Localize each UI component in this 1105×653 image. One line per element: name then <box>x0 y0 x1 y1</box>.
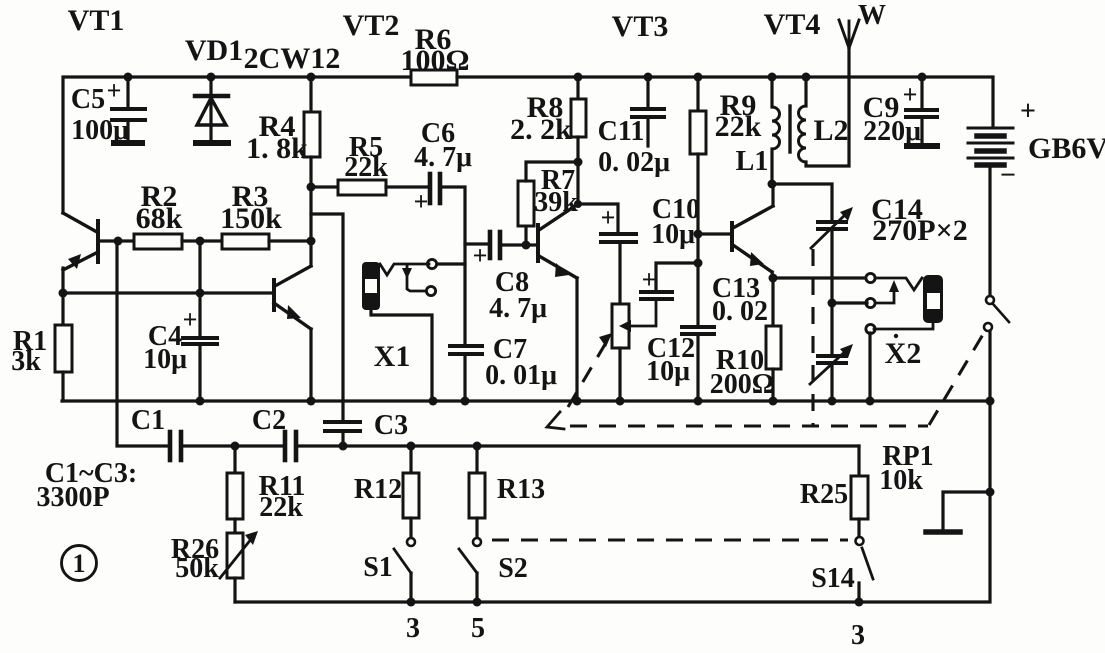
svg-text:10μ: 10μ <box>143 344 187 375</box>
svg-text:200Ω: 200Ω <box>710 369 774 400</box>
svg-text:R13: R13 <box>497 474 545 505</box>
svg-text:22k: 22k <box>259 492 303 523</box>
svg-text:C2: C2 <box>252 405 286 436</box>
svg-text:10μ: 10μ <box>646 356 690 387</box>
svg-text:3300P: 3300P <box>36 482 109 513</box>
svg-text:22k: 22k <box>715 110 762 143</box>
svg-text:150k: 150k <box>220 202 282 235</box>
svg-text:1. 8k: 1. 8k <box>246 132 308 165</box>
svg-text:+: + <box>642 265 657 294</box>
svg-text:VT3: VT3 <box>612 10 669 43</box>
svg-text:100Ω: 100Ω <box>400 44 469 77</box>
svg-text:+: + <box>414 187 429 216</box>
svg-text:1: 1 <box>73 549 86 578</box>
svg-text:2CW12: 2CW12 <box>244 42 341 75</box>
svg-text:10μ: 10μ <box>651 219 695 250</box>
svg-text:S14: S14 <box>811 563 855 594</box>
svg-text:5: 5 <box>471 613 485 644</box>
svg-text:S2: S2 <box>498 553 528 584</box>
svg-text:4. 7μ: 4. 7μ <box>414 142 472 173</box>
svg-text:50k: 50k <box>175 553 219 584</box>
svg-text:10k: 10k <box>879 465 923 496</box>
svg-text:100μ: 100μ <box>71 115 129 146</box>
svg-text:+: + <box>107 76 122 105</box>
svg-text:VT4: VT4 <box>764 8 821 41</box>
svg-text:+: + <box>903 80 918 109</box>
svg-text:39k: 39k <box>534 187 578 218</box>
svg-text:22k: 22k <box>344 152 388 183</box>
svg-text:220μ: 220μ <box>863 116 921 147</box>
svg-text:S1: S1 <box>363 552 393 583</box>
svg-text:VT1: VT1 <box>68 4 125 37</box>
svg-text:4. 7μ: 4. 7μ <box>489 293 547 324</box>
svg-text:3k: 3k <box>11 346 41 377</box>
svg-text:270P×2: 270P×2 <box>872 214 967 247</box>
svg-text:68k: 68k <box>136 202 183 235</box>
svg-text:C5: C5 <box>71 84 105 115</box>
svg-text:+: + <box>601 203 616 232</box>
svg-text:−: − <box>1000 160 1016 191</box>
svg-text:0. 02: 0. 02 <box>712 296 768 327</box>
svg-text:VT2: VT2 <box>343 9 400 42</box>
svg-text:2. 2k: 2. 2k <box>510 113 572 146</box>
svg-text:W: W <box>858 0 886 31</box>
svg-text:L1: L1 <box>736 146 769 177</box>
svg-text:C3: C3 <box>374 410 408 441</box>
svg-text:+: + <box>1020 96 1036 127</box>
svg-text:X1: X1 <box>374 340 411 373</box>
svg-text:R25: R25 <box>800 479 848 510</box>
svg-text:L2: L2 <box>813 114 848 147</box>
svg-text:+: + <box>183 305 198 334</box>
svg-text:C11: C11 <box>598 116 645 147</box>
svg-text:VD1: VD1 <box>185 34 243 67</box>
svg-text:3: 3 <box>406 613 420 644</box>
svg-text:C1: C1 <box>131 405 165 436</box>
svg-text:0. 02μ: 0. 02μ <box>598 147 670 178</box>
svg-text:3: 3 <box>851 620 865 651</box>
svg-text:X2: X2 <box>885 337 922 370</box>
svg-text:R12: R12 <box>354 474 402 505</box>
svg-text:0. 01μ: 0. 01μ <box>485 360 557 391</box>
svg-text:GB6V: GB6V <box>1028 132 1105 165</box>
svg-text:+: + <box>473 241 488 270</box>
